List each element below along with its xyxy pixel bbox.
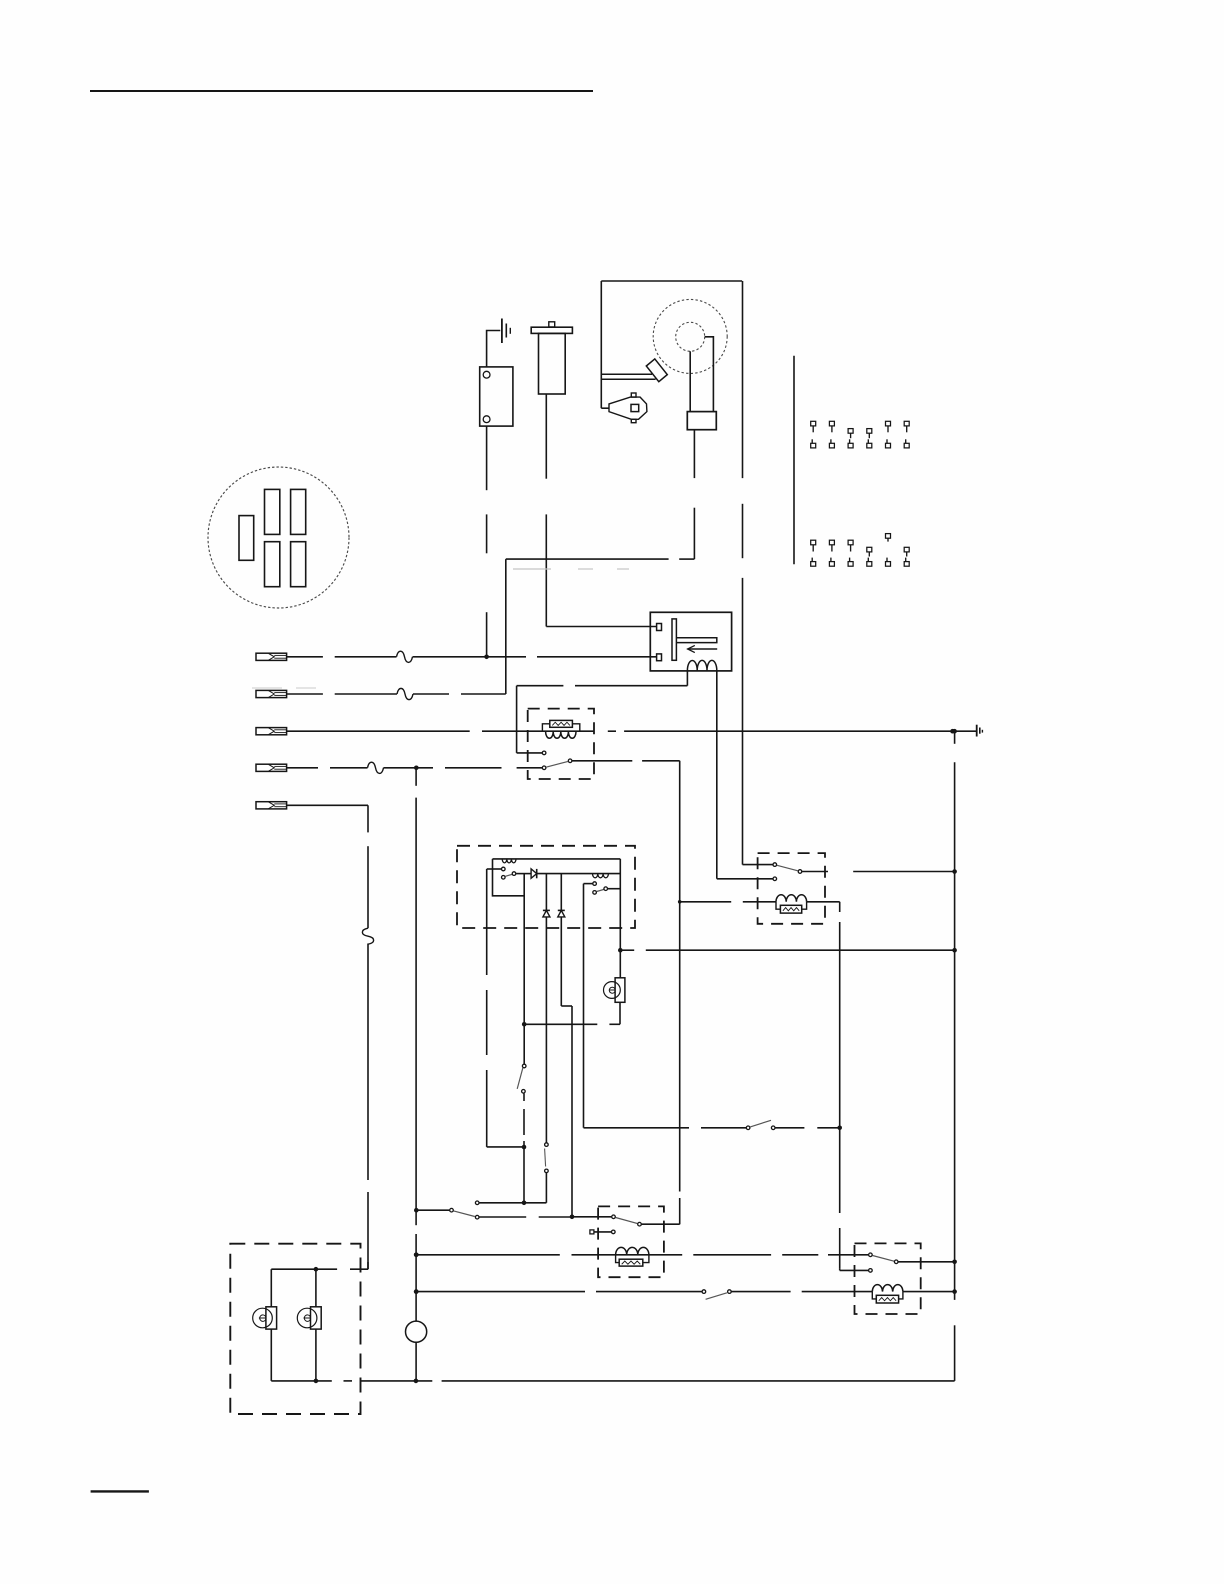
lamp feed riser x368 [367, 805, 369, 832]
wire flywheel to connector [689, 351, 691, 411]
relay K2 dashed box [598, 1206, 664, 1277]
terminal T3 [256, 728, 287, 735]
stator coil 1 [502, 859, 516, 863]
bottom wire 1381 [271, 1380, 332, 1382]
vertical from G switch1 down to lamp feed [486, 869, 488, 975]
right bus vertical [954, 731, 956, 744]
wire K1 coil down to relay K3 [839, 902, 841, 912]
vertical stator right down to bulb [619, 859, 621, 978]
key switch slot 4 [265, 542, 280, 587]
wire connector down-left to terminal 2 riser [693, 430, 695, 478]
armature prongs [601, 373, 652, 375]
key switch slot 2 [265, 489, 280, 534]
zener Z1 [543, 909, 550, 911]
headlight bulb DS1 [270, 1269, 272, 1307]
relay K2 pin stub [590, 1230, 594, 1234]
ghost dashes [513, 568, 551, 570]
key switch slot 5 [291, 542, 306, 587]
vertical stator-left down [523, 874, 525, 1025]
wire 2 [287, 693, 323, 695]
wire engine box right side down to relay K1 switch [742, 281, 744, 478]
wire 1 [287, 656, 323, 658]
key switch slot 3 [291, 489, 306, 534]
relay U1 coil [687, 660, 716, 670]
lamp switch SW5 on x416 [414, 1208, 419, 1213]
wire F1 switch out [572, 760, 632, 762]
terminal T4 [256, 764, 287, 771]
riser x416 [415, 768, 417, 786]
relay K1 switch [773, 863, 777, 867]
relay K3 switch [869, 1253, 873, 1257]
vertical G-S2 throw down [583, 884, 585, 1128]
flywheel inner circle [676, 322, 705, 351]
relay K1 coil wire [678, 900, 682, 904]
wire S1 down to wire1 junction [486, 426, 488, 490]
footer mark [91, 1490, 149, 1492]
relay F1 switch [542, 751, 546, 755]
wire 1127 with switch [584, 1127, 690, 1129]
inner bracket [493, 859, 525, 896]
wire 5 [287, 804, 368, 806]
terminal T1 [256, 653, 287, 660]
wire 1024 [524, 1023, 597, 1025]
relay F1 coil [546, 732, 576, 739]
switch G-S1 [487, 868, 502, 870]
ground G1 top-left [487, 331, 501, 368]
CDI module pentagon [609, 397, 647, 419]
relay K3 coil [872, 1285, 903, 1292]
wire K1 switch out to right bus [802, 871, 828, 873]
relay U1 coil right lead down to relay K1 [716, 670, 718, 878]
bulb B2 lower lead [619, 1002, 621, 1024]
switch S1 box with two terminals [480, 367, 513, 426]
wire K2 switch out [642, 1223, 680, 1225]
meter circle M1 [406, 1321, 427, 1342]
headlight bulb DS2 [315, 1269, 317, 1307]
arrow [688, 648, 718, 650]
wire 950 to right bus [620, 949, 634, 951]
relay F1 resistor [550, 720, 573, 727]
relay U1 coil left lead to F-box [686, 670, 688, 685]
wire 3 to ground [287, 730, 470, 732]
title rule [90, 90, 593, 92]
wire diode to right [537, 873, 621, 875]
stator coil 2 [593, 874, 609, 878]
relay K1 dashed box right [758, 853, 825, 924]
diode D1 [516, 873, 531, 875]
key switch slot 1 [239, 516, 254, 561]
bulb B2 [604, 982, 621, 999]
connector block on flywheel [687, 412, 716, 430]
charging box G dashed [457, 846, 635, 928]
ignition coil CY cylinder [549, 322, 555, 327]
harness line right [793, 356, 795, 565]
vertical x679 from F1 switch [679, 902, 681, 1192]
switch on x524 [523, 1024, 525, 1064]
trigger coil angled rect [646, 359, 667, 382]
relay K2 switch [612, 1215, 616, 1219]
wire engine box to CDI [601, 407, 609, 409]
relay K2 coil [616, 1247, 649, 1254]
vertical zener1 down with switch [545, 917, 547, 1143]
wire 1217 to relay K2 [479, 1216, 526, 1218]
relay U1 starter solenoid box [650, 612, 731, 671]
relay F1 dashed box [528, 709, 594, 779]
stub with terminal [475, 1201, 479, 1205]
relay K3 dashed box bottom right [855, 1243, 921, 1314]
zener Z2 [558, 909, 565, 911]
flywheel outer circle [653, 299, 727, 373]
terminal T2 [256, 690, 287, 697]
engine box E [601, 280, 742, 282]
headlight box L dashed [230, 1244, 360, 1414]
terminal T5 [256, 802, 287, 809]
plunger bar [672, 619, 676, 660]
switch G-S2 [593, 882, 597, 886]
stator top wire [493, 858, 621, 860]
wire 4 [287, 767, 318, 769]
headlight top wire [271, 1268, 337, 1270]
key switch face circle [208, 467, 349, 608]
connector pins group 2 [811, 540, 816, 545]
wire 1292 with switch SW6 [416, 1291, 585, 1293]
wire 1255 [416, 1254, 560, 1256]
wire CY down to relay U1 [545, 394, 547, 479]
connector pins group 1 [811, 421, 816, 426]
relay K1 resistor [780, 905, 801, 913]
vertical zener2 down with jog [560, 917, 562, 1006]
ground right [976, 725, 978, 737]
